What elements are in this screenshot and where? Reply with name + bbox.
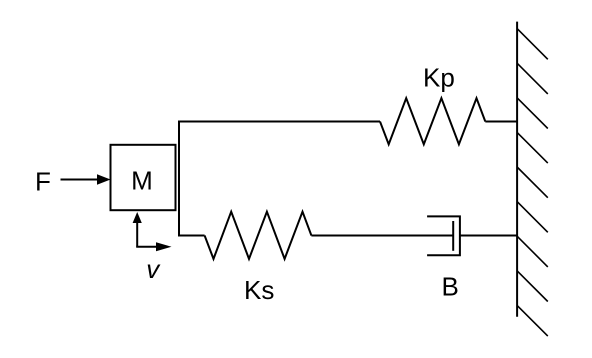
svg-text:B: B (442, 271, 459, 301)
svg-text:v: v (146, 254, 161, 284)
wall hatch 5 (517, 167, 548, 198)
mass M (box) (111, 145, 176, 210)
wall hatch 9 (517, 305, 548, 336)
damper B cylinder (open left cup) (427, 216, 460, 255)
wall hatch 4 (517, 132, 548, 163)
velocity arrow v (horizontal shaft) (136, 246, 157, 248)
wire: spring Ks to damper piston rod (311, 235, 453, 237)
force arrow F (shaft) (61, 179, 100, 181)
svg-text:F: F (35, 166, 51, 196)
velocity arrow v (up head) (133, 212, 142, 223)
force arrow F (head) (97, 174, 111, 185)
wire: top horizontal to spring Kp (178, 121, 380, 123)
wall hatch 3 (517, 98, 548, 129)
wire: damper to wall (460, 235, 517, 237)
wall hatch 2 (517, 63, 548, 94)
svg-text:Kp: Kp (423, 62, 455, 92)
spring Ks (205, 212, 312, 259)
svg-text:Ks: Ks (244, 275, 274, 305)
damper B piston plate (452, 221, 454, 251)
wall hatch 8 (517, 271, 548, 302)
wire: vertical connector from top wire to bottom wire at mass right (178, 121, 180, 237)
wall (fixed support) vertical line (516, 22, 518, 317)
wall hatch 1 (517, 29, 548, 60)
svg-text:M: M (131, 166, 153, 196)
wire: spring Kp to wall (485, 121, 517, 123)
spring Kp (380, 98, 485, 144)
wall hatch 7 (517, 236, 548, 267)
wire: bottom horizontal from connector to spring Ks (178, 235, 205, 237)
velocity arrow v (right head) (156, 242, 172, 251)
wall hatch 6 (517, 202, 548, 233)
velocity arrow v (vertical shaft) (136, 221, 138, 247)
